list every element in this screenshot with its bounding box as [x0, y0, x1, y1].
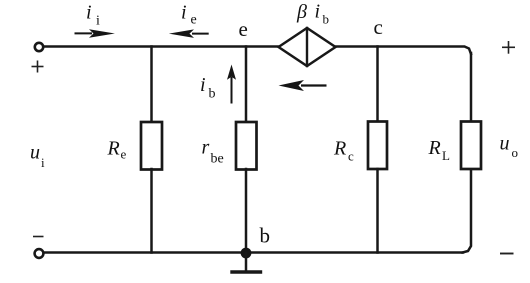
svg-text:b: b: [260, 224, 271, 248]
label RL: [428, 137, 451, 163]
wire rbe branch lower: [245, 169, 248, 253]
wire Re branch upper: [150, 47, 153, 124]
terminal input bottom-left: [35, 249, 44, 258]
label u_o: [500, 133, 519, 161]
wire top from dependent source right vertex to top-right corner: [335, 47, 471, 55]
svg-text:i: i: [181, 2, 187, 24]
svg-text:e: e: [121, 147, 127, 162]
label Re: [107, 138, 127, 162]
polarity plus left: [32, 61, 44, 73]
svg-text:i: i: [315, 1, 321, 23]
label i_b: [200, 74, 216, 102]
polarity minus right: [500, 253, 514, 255]
wire Rc branch lower: [376, 169, 379, 253]
svg-text:u: u: [500, 133, 510, 155]
polarity minus left: [33, 236, 44, 238]
svg-text:e: e: [239, 17, 248, 41]
resistor Re: [141, 122, 162, 170]
svg-text:b: b: [209, 87, 216, 102]
polarity plus right: [502, 41, 515, 54]
svg-text:L: L: [442, 148, 450, 163]
current arrow i_b: [227, 65, 236, 104]
label u_i: [30, 142, 45, 171]
resistor rbe: [236, 122, 257, 170]
wire top from input terminal to dependent source left vertex: [44, 45, 279, 48]
dependent current source beta-ib (diamond): [279, 28, 336, 66]
wire Rc branch upper (node c): [376, 47, 379, 124]
terminal input top-left: [35, 43, 43, 51]
current arrow i_e: [169, 29, 209, 38]
dependent source direction arrow: [279, 80, 327, 91]
ground stem: [245, 253, 248, 271]
ground bar: [232, 270, 261, 273]
wire right vertical upper (corner to RL): [470, 53, 473, 122]
resistor Rc: [368, 122, 387, 170]
svg-text:R: R: [428, 137, 441, 159]
label i_e: [181, 2, 197, 28]
current arrow i_i: [75, 29, 115, 38]
svg-text:β: β: [296, 1, 307, 23]
dependent source internal arrow line: [306, 28, 308, 66]
wire bottom from bottom-right corner to input terminal: [44, 251, 463, 254]
label beta i_b: [296, 1, 329, 27]
junction node b dot: [241, 248, 252, 259]
svg-text:i: i: [41, 155, 45, 170]
svg-text:c: c: [374, 15, 383, 39]
wire rbe branch upper (node e): [245, 47, 248, 124]
svg-text:be: be: [211, 152, 224, 167]
resistor RL: [461, 122, 481, 170]
svg-text:R: R: [107, 138, 120, 160]
svg-text:R: R: [333, 138, 346, 160]
svg-text:e: e: [191, 13, 197, 28]
wire Re branch lower: [150, 169, 153, 253]
svg-text:i: i: [96, 14, 100, 29]
svg-text:i: i: [200, 74, 206, 96]
svg-text:o: o: [512, 145, 519, 160]
svg-text:i: i: [86, 2, 92, 24]
svg-text:c: c: [348, 149, 354, 164]
svg-text:b: b: [323, 12, 330, 27]
wire right vertical lower (RL to bottom-right corner): [463, 169, 472, 253]
label rbe: [202, 137, 224, 167]
svg-text:u: u: [30, 142, 40, 164]
svg-text:r: r: [202, 137, 210, 159]
label Rc: [333, 138, 354, 164]
label i_i: [86, 2, 100, 29]
